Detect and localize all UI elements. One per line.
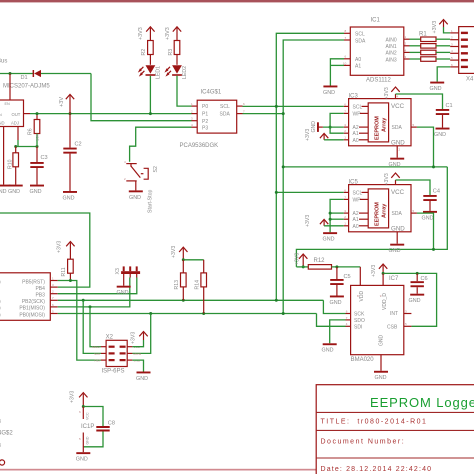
svg-text:IC1P: IC1P [81, 424, 94, 430]
svg-text:AIN1: AIN1 [386, 44, 397, 50]
resistor R1A [410, 37, 451, 42]
svg-text:+3V3: +3V3 [165, 27, 171, 40]
LED LED1 [139, 65, 161, 79]
svg-text:1: 1 [405, 35, 407, 39]
capacitor C6 [411, 273, 428, 293]
svg-text:Array: Array [382, 203, 388, 218]
svg-text:4: 4 [405, 48, 407, 52]
svg-text:P0: P0 [202, 104, 208, 110]
svg-text:GND: GND [136, 376, 148, 382]
svg-text:5: 5 [405, 322, 407, 326]
svg-text:VBus: VBus [0, 59, 7, 65]
svg-text:3: 3 [52, 283, 54, 287]
svg-text:+3V3: +3V3 [138, 27, 144, 40]
node dot IC1P VCC [82, 405, 85, 408]
svg-text:3: 3 [405, 55, 407, 59]
svg-text:VCC: VCC [391, 189, 405, 196]
ground under C6 [409, 294, 425, 304]
svg-text:X4: X4 [466, 77, 474, 83]
svg-text:A0: A0 [355, 57, 361, 63]
wire PB3 row to X3 [58, 278, 137, 294]
pin stubs SCL SDA of IC4 [237, 102, 245, 114]
svg-text:1: 1 [451, 29, 453, 33]
ground under SDO [322, 343, 337, 353]
svg-text:2: 2 [124, 177, 126, 181]
svg-text:GND: GND [0, 189, 7, 195]
svg-text:A0: A0 [353, 224, 359, 230]
ground under IC3 [389, 158, 405, 168]
svg-text:2: 2 [344, 129, 346, 133]
svg-text:2: 2 [405, 42, 407, 46]
svg-text:EN: EN [5, 102, 11, 106]
supply +3V3 arrow above R2 [138, 27, 154, 41]
node dot rail1 X2 branch [82, 299, 85, 302]
pin GND IC3 down [397, 146, 400, 158]
svg-text:PB4: PB4 [35, 286, 45, 292]
IC U1 ADS1112 box [350, 27, 404, 75]
svg-text:R10: R10 [8, 159, 14, 169]
svg-text:BMA020: BMA020 [351, 357, 375, 363]
svg-text:2: 2 [191, 110, 193, 114]
wire PB4 top loop [0, 213, 90, 287]
svg-text:SDA: SDA [392, 211, 403, 217]
ground under C3 [30, 185, 45, 195]
capacitor C1 [436, 103, 453, 128]
wire X4 pin6 to ground [437, 67, 450, 82]
wire SDO to ground [330, 320, 346, 343]
node dot rail2 R14 [202, 312, 205, 315]
wire horizontal SDA link row [283, 166, 447, 168]
svg-text:IC4G$1: IC4G$1 [201, 90, 222, 96]
pin VDD_D IC7 [382, 273, 384, 285]
svg-text:P1: P1 [202, 112, 208, 118]
svg-text:+3V3: +3V3 [57, 241, 63, 253]
resistor R3 [168, 41, 180, 65]
wire IC1 SDA to bus [283, 40, 344, 314]
resistor R12 [308, 258, 331, 269]
pin stubs IC3 left [344, 102, 349, 140]
svg-text:A1: A1 [355, 64, 361, 70]
svg-text:): ) [0, 312, 1, 318]
wire vertical down to P2 row [91, 74, 192, 121]
svg-text:SCL: SCL [353, 104, 363, 110]
node dot PB1 MISO branch [89, 305, 92, 308]
resistor R11 [61, 259, 73, 280]
svg-text:GND: GND [434, 132, 446, 138]
svg-text:ADS1112: ADS1112 [366, 78, 391, 84]
svg-text:ADJ: ADJ [11, 121, 19, 126]
svg-text:6: 6 [344, 102, 346, 106]
node dot +3V / C2 [69, 112, 72, 115]
svg-text:4: 4 [346, 322, 348, 326]
supply +3V3 arrow above R3 [165, 27, 181, 41]
svg-text:7: 7 [243, 110, 245, 114]
svg-text:RST: RST [95, 359, 101, 363]
svg-text:PB3: PB3 [35, 293, 45, 299]
capacitor C4 [423, 189, 440, 211]
svg-text:+3V3: +3V3 [384, 87, 390, 99]
wire SDA rail [58, 313, 317, 315]
svg-text:GND: GND [323, 237, 335, 243]
svg-text:GND: GND [389, 248, 401, 254]
wire pullup top row [183, 259, 203, 261]
svg-text:GND: GND [323, 90, 335, 96]
switch S2 Start-Stop [124, 160, 159, 213]
svg-text:7: 7 [344, 195, 346, 199]
svg-text:5: 5 [451, 56, 453, 60]
regulator IC box MIC5207 [0, 100, 24, 127]
supply +3V3 arrow at IC3 A0 [305, 129, 328, 141]
wire IC5 WP comb to ground below [330, 199, 344, 232]
pin SDA IC5 right stub [411, 209, 417, 213]
svg-text:GND: GND [422, 215, 434, 221]
svg-text:D1: D1 [21, 75, 28, 81]
connector X4 box [459, 27, 474, 83]
ground under X2 [136, 372, 151, 382]
svg-text:2: 2 [451, 36, 453, 40]
svg-text:8: 8 [345, 29, 347, 33]
capacitor C5 [330, 267, 350, 296]
svg-text:3: 3 [344, 209, 346, 213]
wire SCK down to X2 [83, 300, 101, 353]
node dot rail1 R13 [182, 299, 185, 302]
svg-text:Array: Array [382, 117, 388, 132]
pin stubs IC1 right AIN0-3 [404, 35, 410, 59]
svg-text:PCA9536DGK: PCA9536DGK [180, 143, 219, 149]
node dot IC5 SDA tee [432, 248, 435, 251]
wire LED1 cathode to P1 rail [149, 76, 151, 114]
ground under C5 [330, 296, 344, 306]
wire SDA row PCA to bus [243, 113, 284, 115]
svg-text:1: 1 [52, 276, 54, 280]
svg-text:+3V3: +3V3 [305, 129, 311, 141]
svg-text:3: 3 [191, 117, 193, 121]
IC U-IC4 PCA9536 box [197, 100, 237, 133]
svg-text:2: 2 [52, 290, 54, 294]
node dot rail2 MOSI branch [149, 312, 152, 315]
supply +3V3 arrow at IC7 VDD_D [371, 264, 388, 277]
capacitor C2 [63, 114, 81, 191]
wire divider node row [16, 146, 37, 148]
svg-text:GND: GND [311, 121, 317, 133]
svg-text:7: 7 [346, 316, 348, 320]
svg-text:5: 5 [79, 437, 81, 441]
svg-text:R13: R13 [174, 280, 180, 290]
svg-text:A2: A2 [353, 125, 359, 131]
resistor R14 [195, 260, 207, 314]
ground under C2 [63, 191, 78, 202]
ground under C4 [422, 211, 438, 221]
svg-text:X2: X2 [106, 334, 114, 340]
svg-text:6: 6 [243, 102, 245, 106]
wire ADJ to divider node [17, 140, 19, 147]
svg-text:C8: C8 [108, 421, 115, 427]
svg-text:SCL: SCL [220, 104, 230, 110]
pin stubs MCU right [50, 276, 57, 313]
svg-text:PB5(RST): PB5(RST) [22, 279, 45, 285]
svg-text:1: 1 [191, 102, 193, 106]
svg-text:GND: GND [391, 225, 405, 232]
title block box [316, 385, 474, 474]
svg-text:SDA: SDA [392, 125, 403, 131]
node dot R10 top [14, 145, 17, 148]
ground under R10 [8, 185, 23, 195]
svg-text:1: 1 [344, 136, 346, 140]
ground under IC5 comb [323, 232, 338, 242]
svg-text:IC7: IC7 [389, 276, 399, 282]
svg-text:+3V3: +3V3 [131, 332, 137, 344]
svg-text:TITLE: tr080-2014-R01: TITLE: tr080-2014-R01 [321, 419, 428, 426]
svg-text:6: 6 [344, 188, 346, 192]
pin stubs IC5 left [344, 188, 349, 226]
svg-text:+3V3: +3V3 [305, 215, 311, 227]
svg-text:EEPROM: EEPROM [375, 116, 381, 140]
ground under IC7 [374, 371, 388, 381]
svg-text:AIN3: AIN3 [386, 57, 397, 63]
ground sideways for IC3 [311, 121, 323, 133]
svg-text:AIN0: AIN0 [386, 38, 397, 44]
svg-text:2: 2 [399, 148, 401, 152]
svg-text:SCK: SCK [94, 352, 100, 356]
svg-text:AIN2: AIN2 [386, 51, 397, 57]
pin EN up to input net [9, 74, 11, 101]
wire +3V3 to X4 pin1 [444, 27, 451, 33]
svg-text:X3: X3 [115, 268, 121, 274]
svg-text:R3: R3 [168, 49, 174, 56]
wire MISO down to X2 [90, 307, 101, 347]
svg-text:2: 2 [344, 215, 346, 219]
svg-text:A2: A2 [353, 211, 359, 217]
supply +3V arrow [59, 94, 74, 113]
svg-text:R6: R6 [28, 128, 34, 135]
svg-text:INT: INT [390, 311, 398, 317]
pin GND of regulator down [3, 127, 5, 185]
wire A0 row IC5 [324, 225, 344, 227]
pin stubs X2 [92, 345, 141, 362]
svg-text:7: 7 [345, 36, 347, 40]
svg-text:CSB: CSB [387, 324, 398, 330]
wire P3 to switch [130, 127, 192, 162]
svg-text:6: 6 [79, 410, 81, 414]
svg-text:EEPROM: EEPROM [375, 202, 381, 226]
power symbol IC1P [79, 407, 94, 453]
wire SCL row PCA to IC3 [243, 105, 344, 107]
svg-text:GND: GND [129, 195, 141, 201]
svg-text:1: 1 [344, 222, 346, 226]
pin stubs IC7 right INT CSB [404, 309, 412, 326]
svg-text:S2: S2 [153, 166, 159, 172]
diode D1 [21, 70, 42, 81]
node dot comb A1 IC5 [329, 218, 332, 221]
svg-text:+3V3: +3V3 [371, 265, 377, 277]
wire IC5 SDA return [417, 213, 434, 249]
svg-text:A1: A1 [353, 131, 359, 137]
svg-text:GND: GND [76, 457, 88, 463]
resistor R13 [174, 260, 186, 301]
wire SCL bus to IC5 [276, 191, 343, 193]
svg-text:C3: C3 [41, 155, 48, 161]
supply +3V3 arrow at R12 [295, 253, 308, 267]
IC3 EEPROM box [349, 99, 411, 147]
node dot IC3 SDA tee [432, 165, 435, 168]
wire R12 to VDD pin [332, 266, 361, 268]
svg-text:ISP-6PS: ISP-6PS [102, 369, 125, 375]
ground under S2 [129, 190, 143, 200]
ground under IC1P [76, 452, 91, 462]
pin VCC IC5 with +3V3 arrow [384, 173, 400, 186]
svg-text:): ) [0, 279, 1, 285]
svg-text:VDD: VDD [359, 291, 365, 302]
svg-text:): ) [0, 299, 1, 305]
svg-text:GND: GND [322, 348, 334, 354]
svg-text:+3V3: +3V3 [69, 391, 75, 403]
svg-text:10k: 10k [35, 135, 40, 141]
IC7 BMA020 box [351, 285, 404, 354]
svg-text:SCL: SCL [355, 32, 365, 38]
svg-text:GND: GND [85, 436, 89, 444]
supply +3V3 arrow at IC5 A0 [305, 215, 328, 227]
node dot R6 bottom [36, 145, 39, 148]
svg-text:R2: R2 [141, 49, 147, 56]
svg-text:4: 4 [451, 49, 453, 53]
pin VCC IC3 with +3V3 arrow [384, 87, 400, 100]
svg-text:6: 6 [345, 55, 347, 59]
svg-text:GND: GND [8, 189, 20, 195]
LED LED2 [166, 65, 188, 79]
wire D1 cathode to corner [41, 73, 91, 75]
svg-text:): ) [0, 306, 1, 312]
wire LED2 cathode to P0 [177, 76, 192, 106]
connector X2 ISP box [102, 334, 128, 374]
supply +3V3 arrow at R13 R14 [171, 246, 188, 260]
IC5 EEPROM box [349, 185, 411, 233]
wire IC1P to C8 loop [83, 407, 103, 427]
svg-text:P3: P3 [202, 126, 208, 132]
svg-text:MISO: MISO [92, 345, 100, 349]
svg-text:Document Number:: Document Number: [321, 439, 406, 446]
wire VDD filter row [296, 266, 308, 268]
ground under X3 [117, 286, 131, 296]
svg-text:+3V3: +3V3 [295, 253, 301, 265]
svg-text:IO: IO [0, 443, 2, 447]
svg-text:6: 6 [52, 303, 54, 307]
svg-text:WP: WP [353, 197, 362, 203]
ground under IC5 [389, 244, 405, 254]
wire A2 row to sideways ground [323, 126, 344, 128]
svg-text:4: 4 [124, 160, 126, 164]
node dot pullup top [182, 258, 185, 261]
svg-text:R11: R11 [61, 267, 67, 276]
node dot SCL bus tap [275, 105, 278, 108]
resistor R10 [8, 147, 19, 185]
node dot rail1 SCL bus [275, 299, 278, 302]
svg-text:+3V3: +3V3 [171, 246, 177, 258]
pin stubs IC1 left [343, 29, 350, 65]
node dot R12 left [302, 265, 305, 268]
svg-text:C6: C6 [421, 276, 428, 282]
svg-text:GND: GND [30, 189, 42, 195]
wire X2 VCC [132, 340, 143, 347]
svg-text:4: 4 [397, 95, 399, 99]
svg-text:SDA: SDA [355, 38, 366, 44]
svg-text:VCC: VCC [391, 103, 405, 110]
resistor R1D [410, 57, 451, 62]
svg-text:GND: GND [378, 335, 384, 347]
svg-text:5: 5 [52, 309, 54, 313]
node dot VDD_D [382, 272, 385, 275]
svg-text:Date: 28.12.2014 22:42:40: Date: 28.12.2014 22:42:40 [321, 466, 433, 473]
svg-text:+3V3: +3V3 [432, 21, 438, 34]
wire IC1 SCL to bus [276, 33, 344, 300]
svg-text:PB1(MISO): PB1(MISO) [19, 306, 45, 312]
supply +3V3 arrow at X2 [131, 332, 148, 345]
svg-text:IC1: IC1 [371, 18, 381, 24]
svg-text:7: 7 [52, 296, 54, 300]
svg-text:VCC: VCC [85, 412, 89, 420]
svg-text:6: 6 [346, 309, 348, 313]
wire VBus to D1 anode [0, 73, 33, 75]
supply +3V3 arrow at IC1P [69, 391, 87, 407]
resistor R2 [141, 41, 153, 65]
svg-text:IN: IN [0, 113, 2, 117]
wire A0 A1 to ground [330, 59, 344, 86]
svg-text:7: 7 [344, 109, 346, 113]
svg-text:+3V3: +3V3 [384, 173, 390, 185]
supply +3V3 arrow at X4 [432, 20, 448, 34]
node dot C6 tap [416, 272, 419, 275]
svg-text:PB0(MOSI): PB0(MOSI) [19, 312, 45, 318]
node dot R11 bottom [69, 279, 72, 282]
wire SDA rail jog to SDI [317, 314, 346, 327]
wire X2 GND [132, 360, 143, 371]
capacitor C3 [30, 147, 47, 185]
svg-text:IC4G$2: IC4G$2 [0, 431, 13, 437]
ground under IC1 A pins [323, 86, 337, 96]
svg-text:IO: IO [0, 419, 2, 423]
svg-text:C2: C2 [75, 142, 82, 148]
wire SCL rail jog to SCK [323, 300, 345, 313]
wire VCC node to C1 [396, 94, 443, 109]
frame top border [0, 0, 474, 2]
ground under C1 [434, 128, 450, 138]
svg-text:SDO: SDO [354, 318, 365, 324]
svg-text:3: 3 [344, 123, 346, 127]
svg-text:VDD_D: VDD_D [382, 293, 388, 310]
svg-text:OUT: OUT [12, 112, 21, 117]
node dot OUT [36, 112, 39, 115]
wire VDD_D row to CSB loop [383, 273, 437, 326]
pin stubs X4 [450, 29, 459, 67]
svg-text:6: 6 [451, 63, 453, 67]
svg-text:LED2: LED2 [182, 66, 188, 79]
ground under X4 [430, 82, 445, 92]
node dot LED1 on rail [149, 112, 152, 115]
pin stubs IC7 left [346, 309, 351, 326]
wire IC3 WP comb [330, 113, 344, 133]
node junction at EN tap [9, 72, 12, 75]
capacitor C8 [96, 421, 115, 432]
svg-text:C4: C4 [433, 189, 440, 195]
svg-text:A1: A1 [353, 217, 359, 223]
supply +3V3 arrow at R11 [57, 241, 75, 260]
svg-text:R14: R14 [195, 280, 201, 290]
resistor R6 [28, 114, 40, 147]
svg-text:5: 5 [413, 123, 415, 127]
resistor R1C [410, 50, 451, 55]
svg-text:EEPROM Logge: EEPROM Logge [370, 395, 474, 410]
node dot comb A2 [329, 126, 332, 129]
svg-text:MOSI: MOSI [134, 352, 142, 356]
